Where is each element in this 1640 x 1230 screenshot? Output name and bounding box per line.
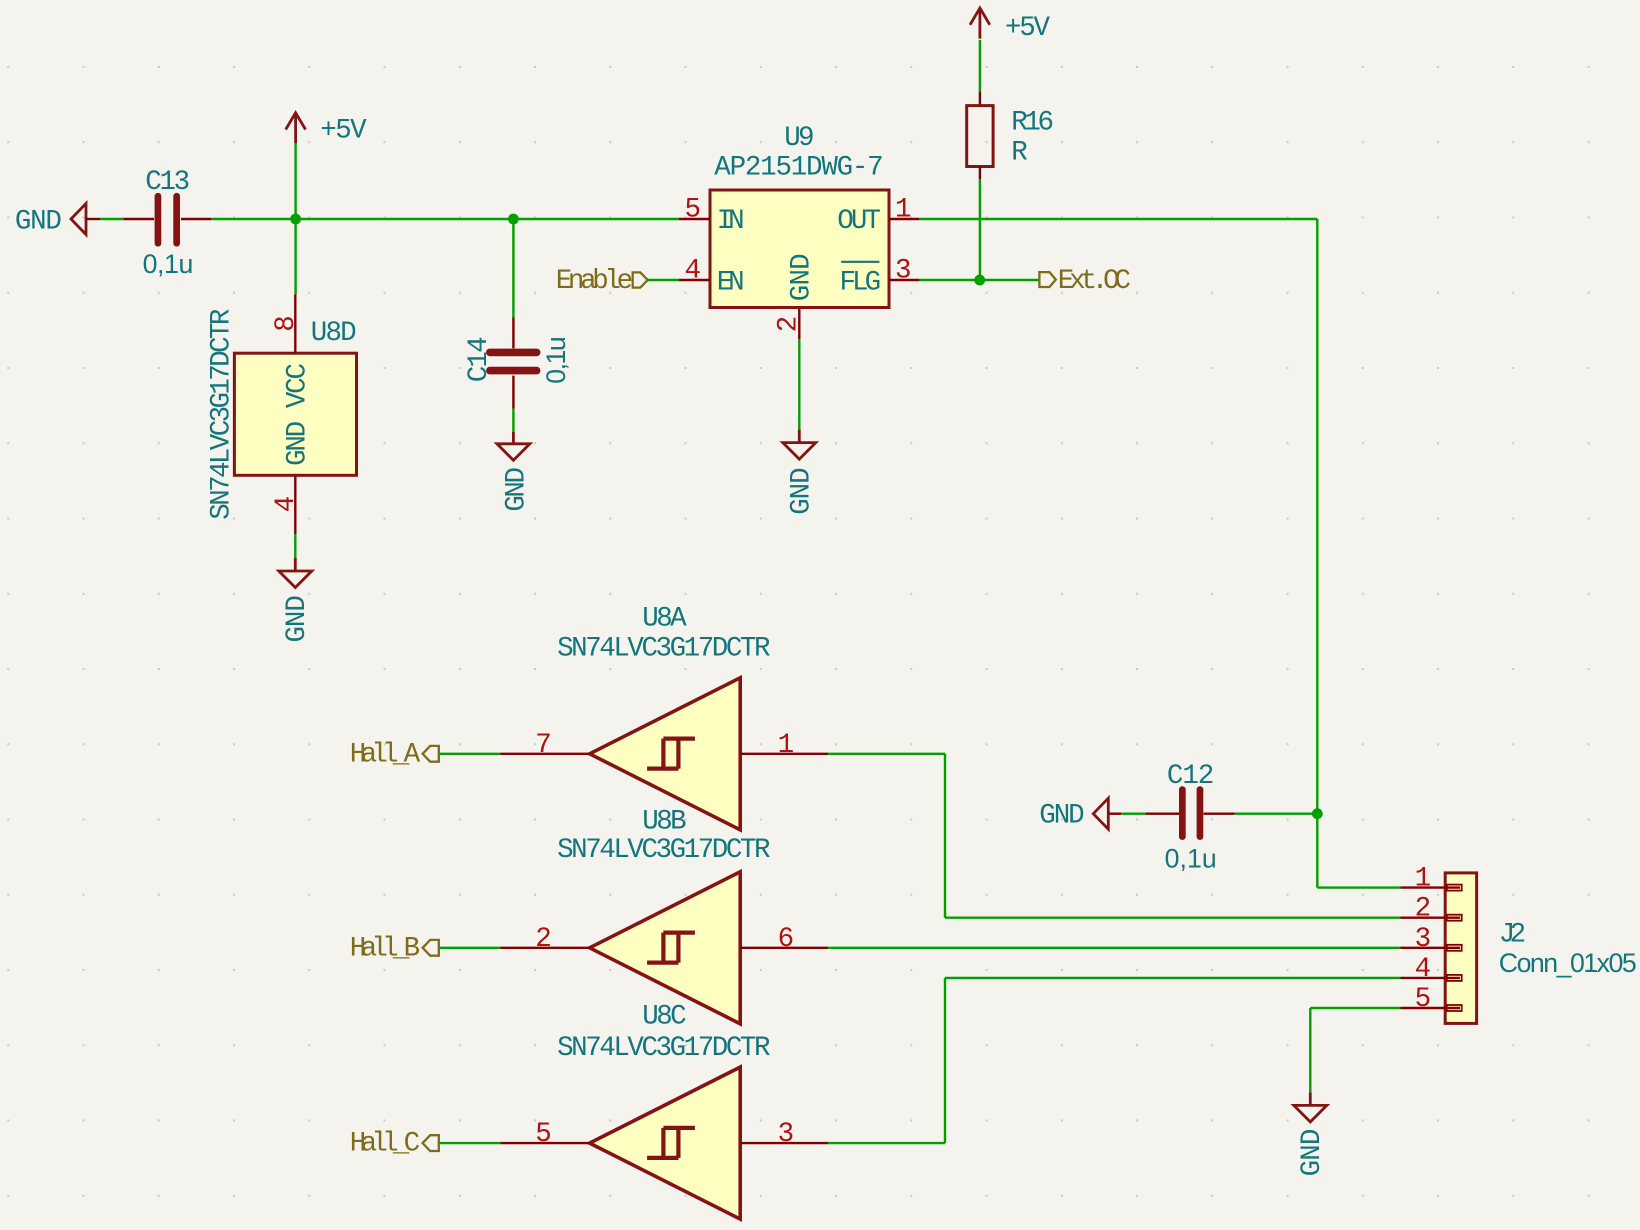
svg-text:0,1u: 0,1u	[541, 336, 571, 383]
pin 3 of J2	[1401, 947, 1461, 949]
svg-text:FLG: FLG	[840, 267, 882, 298]
svg-text:8: 8	[271, 315, 302, 332]
wire OUT to J2 pin1	[1317, 886, 1400, 888]
svg-text:SN74LVC3G17DCTR: SN74LVC3G17DCTR	[557, 1033, 770, 1064]
wire OUT vertical	[1316, 219, 1318, 888]
svg-text:C12: C12	[1167, 761, 1214, 792]
buffer U8C SN74LVC3G17DCTR	[590, 1067, 741, 1219]
power +5V symbol (left)	[286, 113, 306, 130]
svg-text:AP2151DWG-7: AP2151DWG-7	[714, 153, 883, 184]
svg-text:+5V: +5V	[1005, 13, 1051, 44]
svg-text:OUT: OUT	[837, 206, 881, 237]
connector J2 Conn_01x05	[1445, 873, 1476, 1024]
pin 2 (GND) of U9	[798, 309, 800, 339]
buffer U8A SN74LVC3G17DCTR	[590, 678, 741, 830]
svg-text:J2: J2	[1499, 920, 1526, 951]
pin 2 (input) of U8B	[500, 947, 589, 949]
wire Hall_C to U8C	[440, 1142, 501, 1144]
svg-text:Hall_B: Hall_B	[350, 933, 420, 964]
svg-text:EN: EN	[717, 267, 745, 298]
pin 5 (input) of U8C	[500, 1142, 589, 1144]
svg-text:4: 4	[271, 496, 302, 513]
capacitor C13	[123, 218, 154, 220]
svg-text:Conn_01x05: Conn_01x05	[1499, 948, 1637, 978]
pin 4 (EN) of U9	[679, 279, 710, 281]
wire OUT net	[919, 218, 1317, 220]
wire Hall_A to U8A	[440, 753, 501, 755]
resistor R16	[979, 92, 981, 106]
wire U9 pin2 to GND	[798, 339, 800, 429]
pin 1 (output) of U8A	[740, 753, 828, 755]
svg-text:R: R	[1011, 137, 1028, 168]
power +5V symbol (right)	[970, 8, 990, 25]
schmitt trigger symbol (U8C)	[647, 1128, 695, 1158]
wire U8D pin4 to GND	[294, 534, 296, 558]
ground symbol under U9	[798, 429, 801, 442]
svg-text:Hall_A: Hall_A	[350, 739, 421, 770]
wire R16 to FLG node	[979, 179, 981, 280]
svg-text:4: 4	[1415, 954, 1432, 985]
svg-text:C13: C13	[145, 167, 190, 198]
pin 4 (GND) of U8D	[294, 475, 296, 534]
wire Enable to EN	[648, 279, 679, 281]
wire GND to C13	[100, 218, 123, 220]
pin 2 of J2	[1401, 917, 1461, 919]
pin 1 (OUT) of U9	[889, 218, 919, 220]
svg-text:2: 2	[535, 924, 552, 955]
svg-text:GND: GND	[787, 253, 818, 301]
svg-text:GND: GND	[282, 595, 313, 642]
svg-text:U8D: U8D	[311, 318, 357, 349]
wire FLG net	[919, 279, 1039, 281]
pin 1 of J2	[1401, 886, 1461, 888]
svg-text:3: 3	[1415, 924, 1432, 955]
svg-text:Ext.OC: Ext.OC	[1058, 266, 1131, 297]
svg-text:+5V: +5V	[320, 116, 367, 147]
pin 5 of J2	[1401, 1007, 1461, 1009]
svg-text:SN74LVC3G17DCTR: SN74LVC3G17DCTR	[557, 634, 770, 665]
svg-text:6: 6	[778, 924, 795, 955]
svg-text:GND: GND	[1297, 1129, 1328, 1177]
pin 6 (output) of U8B	[740, 947, 828, 949]
hierarchical label Ext.OC	[1039, 272, 1055, 287]
svg-text:2: 2	[773, 316, 804, 333]
svg-text:VCC: VCC	[282, 363, 313, 408]
svg-text:GND: GND	[1039, 800, 1084, 831]
svg-text:5: 5	[535, 1119, 552, 1150]
junction at C12/OUT net	[1312, 808, 1323, 819]
svg-text:U8A: U8A	[642, 603, 687, 634]
wire U8B output to J2 pin3	[828, 947, 1400, 949]
junction at FLG/R16	[974, 275, 985, 286]
ground symbol under C14	[512, 432, 515, 444]
IC U8D power unit SN74LVC3G17DCTR	[234, 353, 356, 475]
wire +5V rail	[211, 218, 679, 220]
junction at C13 rail	[290, 214, 301, 225]
ground symbol GND (left of C13)	[71, 204, 86, 235]
ground symbol under U8D	[294, 558, 297, 571]
svg-text:1: 1	[1415, 864, 1432, 895]
svg-text:5: 5	[684, 194, 701, 225]
svg-text:C14: C14	[464, 336, 495, 382]
wire rail to C14	[512, 219, 514, 318]
junction at C14 tap	[508, 214, 519, 225]
wire +5V to R16	[979, 40, 981, 92]
svg-text:3: 3	[895, 256, 912, 287]
svg-text:IN: IN	[717, 206, 745, 237]
pin 3 (FLG) of U9	[889, 279, 919, 281]
svg-text:SN74LVC3G17DCTR: SN74LVC3G17DCTR	[557, 835, 770, 866]
schmitt trigger symbol (U8A)	[647, 739, 695, 769]
svg-text:GND: GND	[15, 207, 62, 238]
wire J2 pin5 to GND	[1310, 1007, 1400, 1009]
svg-text:0,1u: 0,1u	[143, 249, 194, 279]
wire C14 to GND	[512, 409, 514, 433]
pin 4 of J2	[1401, 977, 1461, 979]
wire U8A output to J2 pin2	[828, 753, 945, 755]
pin 3 (output) of U8C	[740, 1142, 828, 1144]
svg-text:GND: GND	[502, 467, 533, 512]
svg-text:GND: GND	[787, 467, 818, 514]
svg-text:Enable: Enable	[556, 266, 634, 297]
capacitor C12	[1121, 813, 1145, 815]
IC U9 AP2151DWG-7	[710, 190, 889, 308]
schmitt trigger symbol (U8B)	[647, 933, 695, 963]
wire U8C output to J2 pin4	[828, 1142, 945, 1144]
pin 8 (VCC) of U8D	[294, 294, 296, 353]
ground symbol GND (left of C12)	[1093, 798, 1108, 829]
svg-text:R16: R16	[1011, 108, 1054, 139]
svg-text:Hall_C: Hall_C	[350, 1129, 420, 1160]
svg-text:U9: U9	[784, 123, 814, 154]
svg-text:GND: GND	[282, 421, 313, 466]
svg-text:U8C: U8C	[642, 1002, 686, 1033]
svg-text:3: 3	[778, 1119, 795, 1150]
svg-text:2: 2	[1415, 894, 1432, 925]
svg-text:7: 7	[535, 730, 552, 761]
buffer U8B SN74LVC3G17DCTR	[590, 872, 741, 1024]
wire Hall_B to U8B	[440, 947, 501, 949]
svg-text:U8B: U8B	[642, 807, 686, 838]
wire +5V to rail	[294, 143, 296, 294]
svg-text:SN74LVC3G17DCTR: SN74LVC3G17DCTR	[206, 309, 237, 520]
svg-text:0,1u: 0,1u	[1165, 843, 1217, 873]
ground symbol under J2	[1309, 1092, 1312, 1105]
svg-text:1: 1	[778, 730, 795, 761]
capacitor C14	[512, 318, 514, 349]
pin 5 (IN) of U9	[679, 218, 710, 220]
svg-text:5: 5	[1415, 984, 1432, 1015]
svg-text:1: 1	[895, 194, 912, 225]
svg-text:4: 4	[684, 256, 701, 287]
pin 7 (input) of U8A	[500, 753, 589, 755]
